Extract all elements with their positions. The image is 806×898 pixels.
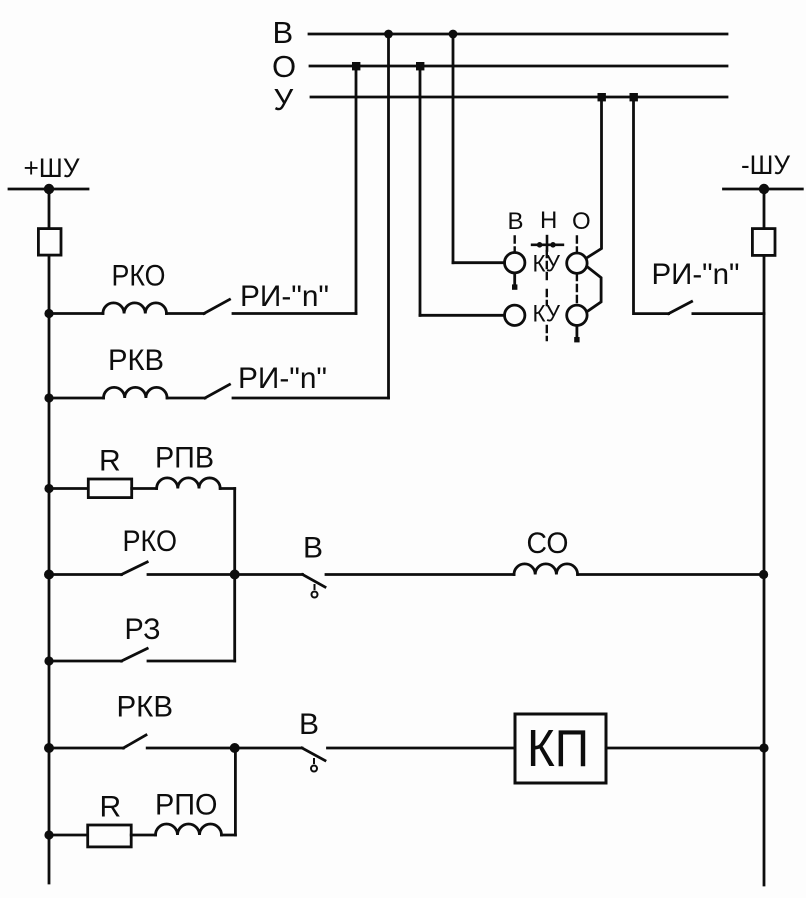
- svg-text:СО: СО: [527, 527, 569, 560]
- svg-text:Н: Н: [540, 207, 557, 234]
- svg-text:РЗ: РЗ: [125, 613, 161, 646]
- svg-text:РКВ: РКВ: [108, 344, 164, 377]
- svg-text:R: R: [99, 445, 121, 478]
- svg-text:О: О: [572, 208, 591, 235]
- svg-text:О: О: [272, 49, 296, 84]
- svg-text:У: У: [274, 82, 294, 117]
- svg-text:РПВ: РПВ: [155, 442, 214, 475]
- svg-text:РКВ: РКВ: [117, 691, 174, 724]
- svg-text:В: В: [508, 208, 524, 235]
- svg-text:КУ: КУ: [533, 251, 561, 278]
- svg-text:КП: КП: [527, 720, 589, 778]
- svg-text:-ШУ: -ШУ: [741, 150, 791, 180]
- svg-text:РКО: РКО: [112, 260, 166, 293]
- svg-text:РИ-"n": РИ-"n": [238, 362, 327, 395]
- svg-text:РИ-"n": РИ-"n": [652, 258, 740, 291]
- svg-text:В: В: [299, 708, 319, 741]
- svg-text:РКО: РКО: [123, 525, 178, 558]
- svg-text:РИ-"n": РИ-"n": [240, 280, 329, 313]
- svg-text:В: В: [303, 532, 323, 565]
- svg-text:В: В: [273, 15, 294, 50]
- svg-text:РПО: РПО: [155, 789, 218, 822]
- svg-text:+ШУ: +ШУ: [24, 153, 81, 183]
- svg-text:R: R: [100, 791, 122, 824]
- svg-text:КУ: КУ: [533, 301, 561, 328]
